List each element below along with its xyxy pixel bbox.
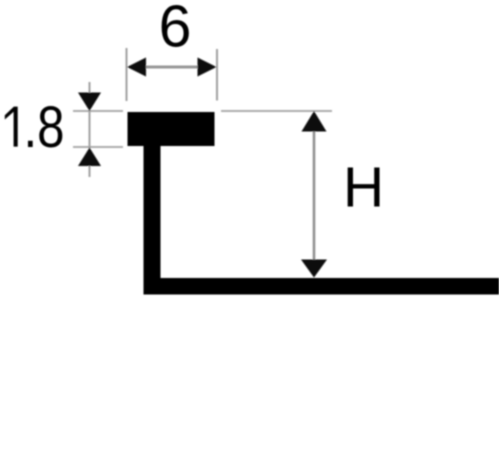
profile vertical stem [144,145,161,295]
dimension line for 6 [142,66,201,69]
extension line right of dimension 6 [216,49,218,101]
extension line left of dimension 6 [126,48,128,101]
profile top flange [128,112,215,146]
extension line top of dimension H [221,110,332,112]
dimension line for H [313,120,316,270]
arrowhead bottom of dimension H pointing down [301,260,327,278]
extension line top of dimension 1.8 [73,110,123,112]
extension line bottom of dimension 1.8 [73,146,123,148]
arrowhead left of dimension 6 [127,58,146,77]
svg-text:6: 6 [159,0,192,60]
svg-text:.8: .8 [24,95,65,160]
arrowhead upper of dimension 1.8 pointing down [78,93,101,112]
arrowhead lower of dimension 1.8 pointing up [78,148,101,167]
dimension line for 1.8 [89,82,91,177]
dimension label 1.8 digit 1 [5,107,18,147]
svg-text:H: H [343,156,384,220]
arrowhead right of dimension 6 [198,58,217,77]
profile bottom leg [144,278,499,295]
arrowhead top of dimension H pointing up [302,111,327,132]
